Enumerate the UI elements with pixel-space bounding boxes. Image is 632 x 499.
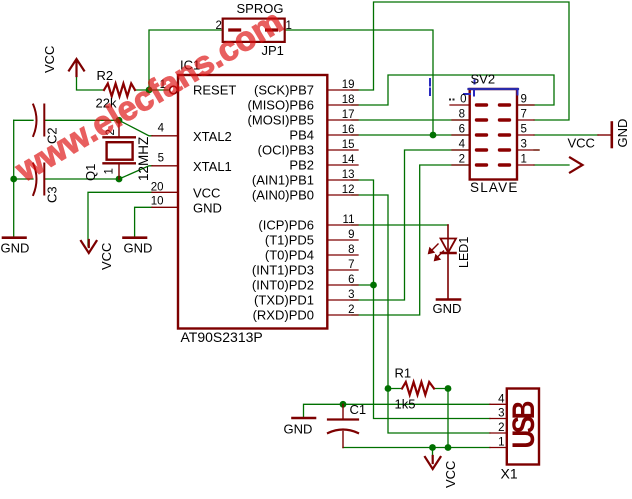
wire net SV2-3 stub	[534, 149, 539, 151]
connector JP1	[223, 19, 285, 42]
svg-text:1: 1	[104, 168, 116, 174]
wire net SV2-1 to VCC	[534, 164, 569, 166]
junction at VCC/USB-1 node	[429, 444, 436, 451]
svg-text:5: 5	[521, 124, 527, 136]
wire net PD6 to LED	[352, 224, 448, 226]
SV2 pin pads	[477, 105, 510, 165]
svg-text:14: 14	[342, 154, 355, 166]
IC1 pin leads left	[152, 136, 178, 208]
svg-text:(AIN1)PB1: (AIN1)PB1	[252, 173, 314, 188]
svg-text:4: 4	[498, 393, 505, 405]
wire net PD0 to SV2-2	[352, 165, 470, 315]
wire net JP1-pin2 to RESET junction	[77, 30, 223, 90]
pin numbers IC1 right	[342, 79, 355, 316]
svg-text:R1: R1	[395, 366, 412, 381]
svg-text:2: 2	[459, 154, 465, 166]
svg-text:4: 4	[158, 123, 165, 135]
wire net PB0/R1 to USB-2	[352, 195, 490, 448]
svg-text:7: 7	[521, 109, 527, 121]
svg-text:VCC: VCC	[443, 461, 458, 488]
svg-text:R2: R2	[97, 68, 114, 83]
svg-text:5: 5	[158, 153, 164, 165]
svg-text:19: 19	[342, 79, 355, 91]
svg-text:(T0)PD4: (T0)PD4	[265, 248, 314, 263]
wire net SV2-5 to GND	[534, 134, 598, 136]
svg-text:VCC: VCC	[568, 136, 595, 151]
svg-text:11: 11	[343, 214, 355, 226]
wire net PD1 to SV2-4	[352, 150, 470, 300]
SV2 pin leads	[450, 105, 539, 165]
svg-text:GND: GND	[124, 241, 153, 256]
svg-text:16: 16	[342, 124, 355, 136]
SV2 pin numbers right	[521, 94, 527, 166]
junction at XTAL2/C2/Q1 node	[116, 117, 123, 124]
LED1 emission arrows	[429, 244, 444, 260]
vcc symbol USB area (down arrow)	[425, 456, 441, 469]
svg-text:(INT1)PD3: (INT1)PD3	[252, 263, 314, 278]
svg-text:XTAL2: XTAL2	[193, 129, 232, 144]
connector X1 USB body	[507, 389, 539, 465]
svg-text:(MOSI)PB5: (MOSI)PB5	[248, 113, 314, 128]
svg-text:0: 0	[460, 94, 466, 106]
svg-text:USB: USB	[507, 401, 542, 448]
svg-text:VCC: VCC	[42, 46, 57, 73]
wire net GND pin10	[135, 207, 152, 236]
svg-text:(SCK)PB7: (SCK)PB7	[254, 83, 314, 98]
ground symbol bottom-left	[3, 236, 26, 239]
IC1 pin leads right	[327, 90, 358, 315]
svg-text:(TXD)PD1: (TXD)PD1	[254, 293, 314, 308]
svg-text:3: 3	[521, 139, 527, 151]
svg-text:1: 1	[286, 20, 292, 32]
junction at PB4/JP1/SV2-6 node	[430, 132, 437, 139]
X1 pin leads	[490, 404, 507, 447]
svg-text:9: 9	[521, 94, 527, 106]
X1 pin numbers	[498, 393, 505, 448]
svg-text:9: 9	[348, 229, 354, 241]
wire net XTAL2	[14, 120, 152, 136]
svg-text:(RXD)PD0: (RXD)PD0	[253, 308, 314, 323]
svg-text:GND: GND	[433, 301, 462, 316]
ground symbol right (SV2-5)	[598, 123, 612, 148]
svg-text:VCC: VCC	[99, 243, 114, 270]
svg-text:1: 1	[521, 154, 527, 166]
svg-text:(OCI)PB3: (OCI)PB3	[258, 143, 314, 158]
SV2 pin number 10 clipped dots	[449, 99, 451, 101]
svg-text:X1: X1	[501, 466, 518, 482]
svg-text:(AIN0)PB0: (AIN0)PB0	[252, 188, 314, 203]
capacitor C3	[33, 164, 44, 196]
crystal Q1	[104, 120, 135, 179]
junction at R1/USB-1 node	[445, 444, 452, 451]
svg-text:1: 1	[498, 437, 504, 449]
wire net JP1-pin1 to PB4/SV2-6	[285, 30, 470, 135]
svg-text:C3: C3	[45, 186, 60, 203]
svg-text:Q1: Q1	[83, 164, 98, 181]
junction at C3/GND rail node	[10, 176, 17, 183]
vcc symbol bottom (down arrow, pin20)	[81, 240, 97, 253]
wire net VCC pin20	[88, 192, 152, 246]
svg-text:20: 20	[151, 181, 164, 193]
svg-text:PB4: PB4	[289, 128, 314, 143]
pin numbers IC1 left	[151, 79, 166, 207]
svg-text:2: 2	[498, 422, 504, 434]
diode LED1	[441, 225, 457, 299]
vcc symbol top-left (up arrow)	[69, 59, 84, 76]
connector SV2	[470, 89, 517, 180]
blue selection marks	[430, 79, 518, 96]
pin names IC1 right	[248, 83, 314, 323]
svg-text:PB2: PB2	[289, 158, 314, 173]
svg-text:12: 12	[342, 184, 355, 196]
svg-text:13: 13	[342, 169, 355, 181]
svg-text:(MISO)PB6: (MISO)PB6	[248, 98, 314, 113]
SV2 selected top edge (blue)	[469, 88, 519, 90]
junction at RESET/R2/JP1 node	[146, 87, 153, 94]
svg-text:8: 8	[459, 109, 465, 121]
IC1 RESET bubble pin 1	[170, 86, 178, 94]
svg-text:GND: GND	[1, 241, 30, 256]
svg-text:1k5: 1k5	[395, 397, 416, 412]
svg-text:17: 17	[342, 109, 355, 121]
ground symbol under LED1	[437, 298, 460, 301]
svg-text:18: 18	[342, 94, 355, 106]
svg-text:GND: GND	[615, 119, 630, 148]
junction at PD2/PB1 node	[370, 282, 377, 289]
svg-text:GND: GND	[284, 422, 313, 437]
svg-text:15: 15	[342, 139, 355, 151]
svg-text:(T1)PD5: (T1)PD5	[265, 233, 314, 248]
svg-text:6: 6	[459, 124, 465, 136]
svg-text:XTAL1: XTAL1	[193, 159, 232, 174]
resistor R2	[104, 84, 135, 97]
resistor R1	[402, 382, 434, 395]
junction at XTAL1/C3/Q1 node	[116, 176, 123, 183]
junction at C1/GND/USB-4 node	[340, 401, 347, 408]
op IC1 body	[178, 75, 327, 329]
svg-text:6: 6	[348, 274, 354, 286]
capacitor C1	[328, 404, 358, 447]
svg-text:7: 7	[348, 259, 354, 271]
svg-text:2: 2	[216, 20, 222, 32]
svg-text:8: 8	[348, 244, 354, 256]
wire net PB6 to SV2-9	[352, 75, 554, 105]
wire net GND/C1 to USB-4	[304, 404, 491, 417]
ground symbol mid (pin10)	[124, 236, 147, 239]
svg-text:(ICP)PD6: (ICP)PD6	[258, 218, 314, 233]
capacitor C2	[33, 105, 44, 137]
svg-text:VCC: VCC	[193, 185, 220, 200]
wire net USB-1/VCC	[343, 448, 490, 460]
wire net PB7 to SV2-7 (top route)	[352, 2, 569, 120]
svg-text:2: 2	[348, 304, 354, 316]
wire net XTAL1	[14, 120, 152, 236]
junction at R1 right node	[445, 385, 452, 392]
svg-text:4: 4	[459, 139, 466, 151]
SV2 pin numbers left	[459, 94, 467, 166]
svg-text:SLAVE: SLAVE	[470, 180, 519, 195]
svg-text:AT90S2313P: AT90S2313P	[181, 329, 263, 345]
svg-text:C1: C1	[350, 402, 367, 417]
ground symbol left of C1	[293, 417, 316, 420]
svg-text:SV2: SV2	[471, 72, 496, 87]
svg-text:12MHZ: 12MHZ	[136, 137, 151, 181]
svg-text:GND: GND	[193, 200, 222, 215]
vcc symbol right (SV2-1, right arrow)	[570, 158, 583, 173]
junction at R1 left node	[385, 385, 392, 392]
wire net PB1/PD2 to USB-3	[352, 180, 490, 419]
svg-text:LED1: LED1	[457, 237, 471, 268]
svg-text:3: 3	[348, 289, 354, 301]
svg-text:(INT0)PD2: (INT0)PD2	[252, 278, 314, 293]
svg-text:3: 3	[498, 408, 504, 420]
svg-text:10: 10	[151, 195, 164, 207]
